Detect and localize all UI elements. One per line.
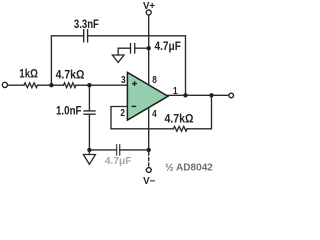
svg-text:4.7μF: 4.7μF <box>155 40 181 53</box>
svg-text:8: 8 <box>152 74 157 86</box>
svg-text:3: 3 <box>121 74 126 86</box>
svg-text:1kΩ: 1kΩ <box>19 66 38 80</box>
svg-text:4: 4 <box>152 108 157 120</box>
svg-text:1.0nF: 1.0nF <box>56 103 82 117</box>
svg-text:½ AD8042: ½ AD8042 <box>165 163 213 174</box>
svg-text:3.3nF: 3.3nF <box>74 17 99 31</box>
svg-text:4.7kΩ: 4.7kΩ <box>56 67 85 81</box>
svg-text:2: 2 <box>120 107 125 119</box>
svg-text:4.7μF: 4.7μF <box>105 156 132 167</box>
svg-text:1: 1 <box>173 85 178 97</box>
svg-text:V+: V+ <box>143 1 155 12</box>
svg-text:V−: V− <box>143 176 155 187</box>
svg-text:4.7kΩ: 4.7kΩ <box>165 112 194 126</box>
